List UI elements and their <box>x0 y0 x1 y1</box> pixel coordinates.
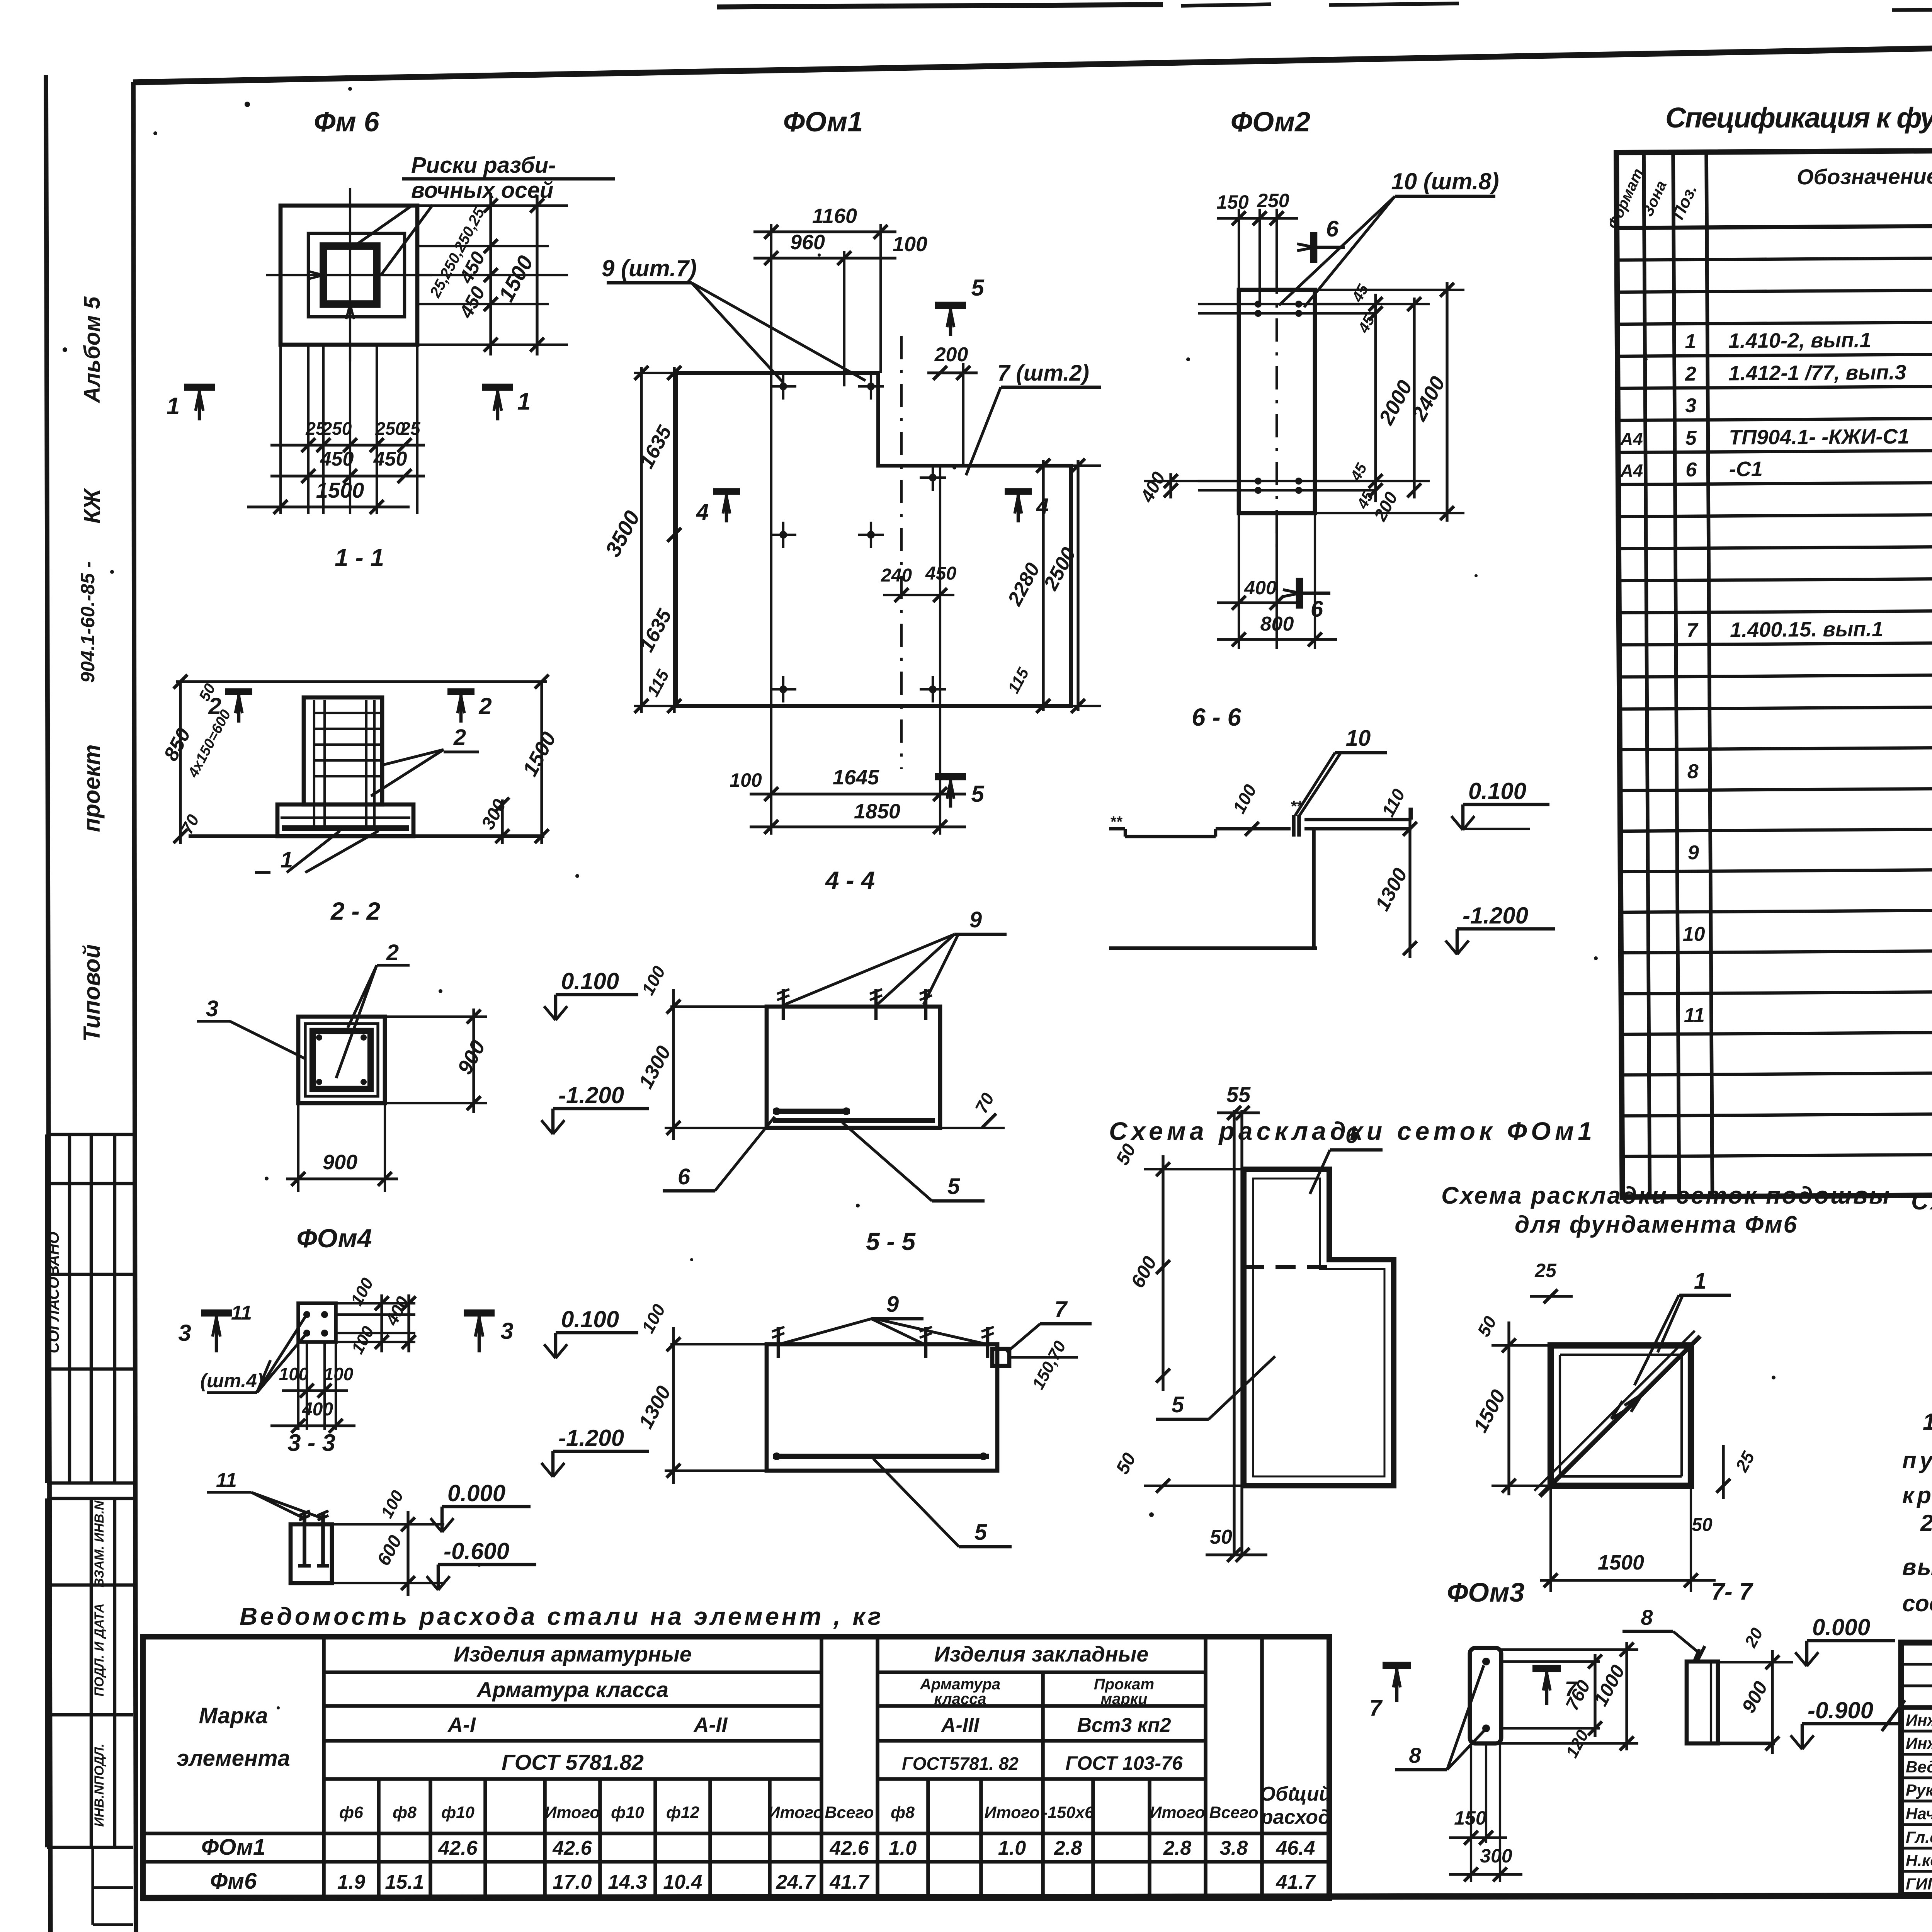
svg-text:1: 1 <box>517 388 531 415</box>
svg-text:8: 8 <box>1409 1743 1421 1767</box>
svg-text:42.6: 42.6 <box>438 1837 478 1859</box>
svg-text:1.410-2, вып.1: 1.410-2, вып.1 <box>1728 328 1871 352</box>
svg-text:0.000: 0.000 <box>447 1480 505 1506</box>
svg-text:марки: марки <box>1101 1690 1148 1708</box>
svg-text:9: 9 <box>969 907 982 932</box>
svg-text:17.0: 17.0 <box>553 1871 592 1893</box>
top dim line of 1-1 elevation <box>176 680 547 683</box>
5-5 block <box>767 1344 997 1471</box>
svg-text:100: 100 <box>279 1364 309 1384</box>
svg-text:-0.900: -0.900 <box>1808 1697 1873 1723</box>
svg-text:Инженер: Инженер <box>1906 1734 1932 1752</box>
section marker 3 left <box>201 1310 232 1317</box>
svg-text:А4: А4 <box>1620 461 1643 481</box>
svg-text:класса: класса <box>934 1690 986 1708</box>
svg-text:3 - 3: 3 - 3 <box>287 1430 335 1456</box>
anchor block <box>291 1524 332 1583</box>
svg-text:Фм6: Фм6 <box>210 1869 257 1894</box>
svg-text:**: ** <box>1290 798 1303 815</box>
svg-text:8: 8 <box>1641 1605 1653 1629</box>
svg-text:Итого: Итого <box>1150 1803 1205 1822</box>
spec table outer <box>1616 146 1932 1197</box>
7-7 bolt <box>1687 1662 1718 1743</box>
svg-text:Фм 6: Фм 6 <box>314 107 379 138</box>
svg-text:6: 6 <box>1685 459 1697 481</box>
svg-text:0.100: 0.100 <box>561 968 619 994</box>
svg-text:Альбом 5: Альбом 5 <box>80 296 105 404</box>
FOm2 right dims <box>1315 303 1430 305</box>
3-3 bottom dims <box>297 1342 299 1430</box>
FOm4 right dim 900 <box>472 1009 475 1113</box>
svg-text:1. Подготовку основания под: 1. Подготовку основания под фундаменты в… <box>1923 1409 1932 1435</box>
svg-text:ФОм2: ФОм2 <box>1231 107 1310 138</box>
svg-text:7- 7: 7- 7 <box>1711 1578 1753 1605</box>
svg-text:СОГЛАСОВАНО: СОГЛАСОВАНО <box>45 1232 62 1354</box>
svg-text:5: 5 <box>971 275 985 301</box>
svg-text:400: 400 <box>302 1399 333 1420</box>
FOm3 square <box>1551 1345 1691 1486</box>
svg-text:9: 9 <box>1688 842 1699 864</box>
FOm4 inner square <box>305 1024 378 1096</box>
svg-text:50: 50 <box>1692 1515 1713 1535</box>
svg-text:11: 11 <box>1684 1004 1705 1027</box>
svg-text:5: 5 <box>975 1520 987 1545</box>
sheet frame: top border <box>133 33 1932 82</box>
svg-text:Риски разби-: Риски разби- <box>411 153 556 178</box>
svg-text:7 (шт.2): 7 (шт.2) <box>997 361 1089 386</box>
section marker 4 right <box>1005 488 1032 495</box>
svg-text:ФОм3: ФОм3 <box>1447 1577 1525 1607</box>
svg-text:3: 3 <box>206 996 218 1021</box>
svg-text:4 - 4: 4 - 4 <box>825 866 875 894</box>
svg-text:15.1: 15.1 <box>385 1871 424 1893</box>
svg-text:Итого: Итого <box>984 1803 1039 1822</box>
vedomost vertical lines <box>322 1637 326 1898</box>
svg-text:Арматура класса: Арматура класса <box>476 1677 668 1702</box>
svg-text:450: 450 <box>373 448 407 470</box>
section marker 5 bottom <box>935 773 966 781</box>
svg-text:Гл.спец.Ю: Гл.спец.Ю <box>1906 1828 1932 1846</box>
svg-text:1: 1 <box>1685 330 1696 353</box>
svg-text:200: 200 <box>934 344 968 366</box>
3-3 witness lines right <box>336 1302 415 1304</box>
svg-text:300: 300 <box>1480 1845 1512 1867</box>
svg-text:5: 5 <box>971 781 985 807</box>
FOm2 centerline <box>1276 270 1278 553</box>
svg-text:1.412-1 /77, вып.3: 1.412-1 /77, вып.3 <box>1728 361 1906 385</box>
4-4 right dim 70 <box>940 1127 1005 1129</box>
svg-text:10: 10 <box>1683 923 1705 946</box>
svg-text:-0.600: -0.600 <box>444 1538 509 1564</box>
svg-text:расход: расход <box>1260 1806 1330 1828</box>
svg-text:А-III: А-III <box>940 1714 980 1736</box>
Fm6 plan column (thick) <box>323 246 377 304</box>
svg-text:ВЗАМ. ИНВ.N: ВЗАМ. ИНВ.N <box>92 1500 107 1587</box>
dims right of bolt bar <box>1501 1648 1638 1651</box>
svg-text:6 - 6: 6 - 6 <box>1192 703 1241 731</box>
svg-text:ф10: ф10 <box>611 1803 644 1822</box>
svg-text:14.3: 14.3 <box>608 1871 647 1893</box>
svg-text:904.1-60.-85 -: 904.1-60.-85 - <box>77 561 99 683</box>
svg-text:крупностью 40-60мм.: крупностью 40-60мм. <box>1902 1482 1932 1508</box>
inner lines <box>770 373 772 706</box>
svg-text:ФОм4: ФОм4 <box>297 1224 372 1253</box>
svg-text:ИНВ.NПОДЛ.: ИНВ.NПОДЛ. <box>92 1743 107 1827</box>
lower stamp grid (vzam/podp/inv) <box>47 1497 133 1500</box>
svg-text:Вед.инж.: Вед.инж. <box>1906 1758 1932 1776</box>
svg-text:7: 7 <box>1687 619 1699 642</box>
soglasovano stamp grid <box>47 1133 133 1136</box>
svg-text:ПОДЛ. И ДАТА: ПОДЛ. И ДАТА <box>92 1604 107 1697</box>
svg-text:2: 2 <box>386 940 399 965</box>
svg-text:Типовой: Типовой <box>79 944 105 1042</box>
Fm6 plan inner step <box>308 233 405 317</box>
5-5 top bolts <box>777 1327 780 1358</box>
svg-text:24.7: 24.7 <box>776 1871 816 1893</box>
signature rows <box>1901 1730 1932 1732</box>
svg-text:0.000: 0.000 <box>1812 1614 1870 1640</box>
svg-text:6: 6 <box>1326 216 1339 241</box>
svg-text:1.0: 1.0 <box>889 1837 917 1859</box>
svg-text:2: 2 <box>453 725 466 750</box>
svg-text:55: 55 <box>1226 1082 1251 1107</box>
anchor bolts <box>303 1513 306 1566</box>
spec header lines <box>1617 221 1932 228</box>
svg-text:1.0: 1.0 <box>998 1837 1026 1859</box>
svg-text:Всего: Всего <box>825 1803 874 1822</box>
FOm4 column thick square <box>313 1031 371 1089</box>
svg-text:50: 50 <box>1210 1526 1232 1548</box>
right dims of 2-2 <box>540 682 543 844</box>
svg-text:ф12: ф12 <box>666 1803 699 1822</box>
svg-text:1: 1 <box>167 393 180 420</box>
svg-text:ГОСТ 103-76: ГОСТ 103-76 <box>1065 1752 1183 1774</box>
svg-text:400: 400 <box>1244 577 1277 599</box>
bolt bar plan <box>1470 1648 1501 1743</box>
svg-text:ГИП: ГИП <box>1906 1875 1932 1893</box>
svg-text:9 (шт.7): 9 (шт.7) <box>602 255 697 281</box>
scan noise specks <box>245 102 250 107</box>
svg-text:3: 3 <box>1685 395 1696 417</box>
svg-text:ГОСТ 5781.82: ГОСТ 5781.82 <box>502 1750 644 1774</box>
FOm4 outer square <box>298 1017 385 1103</box>
svg-text:Марка: Марка <box>199 1703 268 1728</box>
svg-text:соответствии с СН 471- 75.: соответствии с СН 471- 75. <box>1902 1590 1932 1616</box>
dims right of anchor detail <box>406 1511 409 1596</box>
svg-text:250: 250 <box>1257 190 1289 211</box>
svg-text:42.6: 42.6 <box>552 1837 592 1859</box>
svg-text:1: 1 <box>1694 1269 1706 1294</box>
section marker 3 right <box>464 1310 495 1317</box>
ground line <box>189 834 544 838</box>
svg-text:41.7: 41.7 <box>829 1871 869 1893</box>
svg-text:Итого: Итого <box>544 1803 600 1822</box>
svg-text:ф10: ф10 <box>441 1803 474 1822</box>
svg-text:6: 6 <box>1345 1123 1358 1148</box>
svg-text:25: 25 <box>1534 1260 1557 1281</box>
svg-text:1.400.15. вып.1: 1.400.15. вып.1 <box>1730 617 1883 641</box>
svg-text:КЖ: КЖ <box>80 488 105 524</box>
column with rebar <box>304 697 382 804</box>
svg-text:800: 800 <box>1260 613 1294 635</box>
svg-text:Вст3 кп2: Вст3 кп2 <box>1077 1714 1171 1736</box>
svg-text:Н.контр.: Н.контр. <box>1906 1851 1932 1869</box>
diagonal mesh lines <box>1540 1336 1700 1496</box>
svg-text:(шт.4): (шт.4) <box>200 1370 263 1391</box>
svg-text:46.4: 46.4 <box>1276 1837 1315 1859</box>
svg-text:2. Болты поз. 9,10 устанавл: 2. Болты поз. 9,10 устанавливать в гото- <box>1920 1510 1932 1536</box>
svg-text:Рук. гр.: Рук. гр. <box>1906 1781 1932 1799</box>
svg-text:41.7: 41.7 <box>1276 1871 1316 1893</box>
slash before signatures <box>1882 1700 1905 1731</box>
Fm6 plan outer footprint <box>281 206 417 345</box>
svg-text:2: 2 <box>478 693 492 719</box>
svg-text:42.6: 42.6 <box>829 1837 869 1859</box>
6-6 profile <box>1109 827 1125 830</box>
svg-text:150: 150 <box>1454 1807 1486 1829</box>
dashed mesh boundary <box>1244 1265 1329 1269</box>
svg-text:150: 150 <box>1216 191 1249 213</box>
svg-text:6: 6 <box>678 1164 690 1189</box>
svg-text:5: 5 <box>1172 1392 1184 1417</box>
centerline dash-dot <box>900 336 903 769</box>
svg-text:11: 11 <box>216 1469 237 1492</box>
4-4 top bolts <box>782 989 785 1020</box>
svg-text:900: 900 <box>323 1151 357 1174</box>
FOm1 right dims <box>1071 464 1101 467</box>
svg-text:-150х6: -150х6 <box>1042 1803 1094 1822</box>
anchor bolts (9 pcs) <box>779 383 787 390</box>
svg-text:1 - 1: 1 - 1 <box>335 544 384 571</box>
section marker 7 left <box>1383 1662 1411 1669</box>
bottom dims 150 300 <box>1470 1743 1472 1882</box>
svg-text:А4: А4 <box>1620 429 1643 449</box>
svg-text:1645: 1645 <box>833 766 879 789</box>
svg-text:вочных осей: вочных осей <box>411 178 553 203</box>
svg-text:960: 960 <box>790 231 825 254</box>
svg-text:9: 9 <box>886 1292 899 1317</box>
svg-text:для фундамента Фм6: для фундамента Фм6 <box>1515 1211 1797 1238</box>
svg-text:100: 100 <box>730 769 762 791</box>
svg-text:7: 7 <box>1054 1297 1068 1322</box>
svg-text:Спецификация к фундаментам: Спецификация к фундаментам ФОм1 - ФОм4, … <box>1665 102 1932 134</box>
svg-text:0.100: 0.100 <box>561 1306 619 1332</box>
svg-text:Общий: Общий <box>1260 1783 1332 1805</box>
FOm1 left dims <box>634 372 676 374</box>
FOm2 top dims 150 250 <box>1238 209 1240 290</box>
svg-text:10: 10 <box>1346 726 1371 751</box>
svg-text:5: 5 <box>1685 427 1697 449</box>
vedomost horizontal lines <box>324 1670 821 1674</box>
svg-text:Инженер: Инженер <box>1906 1711 1932 1729</box>
Fm6 bottom witness lines and dims <box>279 345 282 514</box>
svg-text:Ведомость расхода стали н: Ведомость расхода стали на элемент , кг <box>240 1602 881 1630</box>
4-4 bottom meshes <box>773 1109 850 1114</box>
4-4 block <box>767 1007 940 1128</box>
scan smudge marks <box>717 5 1163 7</box>
FOm2 left dim 400 <box>1144 480 1239 482</box>
FOm2 anchor rows bottom <box>1198 480 1360 482</box>
svg-text:1500: 1500 <box>316 478 364 502</box>
FOm2 outline <box>1239 290 1315 513</box>
svg-text:ФОм1: ФОм1 <box>783 107 863 138</box>
svg-text:4: 4 <box>1036 494 1049 519</box>
upper small rows <box>1901 1663 1932 1665</box>
svg-text:1500: 1500 <box>1598 1551 1644 1574</box>
section marker 4 left <box>713 488 740 495</box>
svg-text:2: 2 <box>1685 363 1696 385</box>
svg-text:Всего: Всего <box>1209 1803 1258 1822</box>
svg-text:10 (шт.8): 10 (шт.8) <box>1391 168 1499 194</box>
svg-text:11: 11 <box>231 1302 252 1324</box>
section marker 5 top <box>935 302 966 309</box>
svg-text:элемента: элемента <box>177 1746 290 1771</box>
svg-text:10.4: 10.4 <box>663 1871 702 1893</box>
FOm2 anchor rows top <box>1198 303 1360 305</box>
svg-text:450: 450 <box>320 448 354 470</box>
svg-text:ф8: ф8 <box>891 1803 915 1822</box>
svg-text:1160: 1160 <box>812 204 857 228</box>
svg-text:5: 5 <box>947 1174 960 1199</box>
L-shape outline thick <box>1244 1169 1394 1486</box>
svg-text:ГОСТ5781. 82: ГОСТ5781. 82 <box>902 1753 1019 1774</box>
svg-text:4: 4 <box>696 500 709 525</box>
section 2 markers <box>225 688 252 695</box>
footing <box>277 804 413 836</box>
svg-text:3: 3 <box>500 1318 513 1344</box>
svg-text:А-II: А-II <box>693 1713 728 1736</box>
Fm6 axes <box>349 188 351 361</box>
svg-text:8: 8 <box>1687 760 1699 783</box>
svg-text:1.9: 1.9 <box>337 1871 365 1893</box>
section marker 6 top <box>1310 232 1318 263</box>
Fm6 right witness lines and dims <box>417 204 568 207</box>
FOm2 bottom dims <box>1238 513 1240 649</box>
5-5 bottom mesh <box>773 1454 989 1459</box>
svg-text:ФОм1: ФОм1 <box>201 1835 265 1860</box>
svg-text:ТП904.1- -КЖИ-С1: ТП904.1- -КЖИ-С1 <box>1729 425 1909 449</box>
svg-text:А-I: А-I <box>447 1713 476 1736</box>
svg-text:Обозначение: Обозначение <box>1797 164 1932 189</box>
svg-text:вые фундаменты на эпоксидно: вые фундаменты на эпоксидном клею в <box>1902 1554 1932 1580</box>
svg-text:250: 250 <box>322 418 352 439</box>
sheet frame: left trim line <box>46 75 51 1932</box>
level line 0.000 <box>332 1523 444 1526</box>
svg-text:2.8: 2.8 <box>1054 1837 1082 1859</box>
svg-text:240: 240 <box>881 565 912 586</box>
svg-text:**: ** <box>1110 813 1123 830</box>
svg-text:Изделия арматурные: Изделия арматурные <box>454 1642 692 1666</box>
sheet frame: inner left margin line <box>133 82 136 1932</box>
svg-text:Нач.осп.: Нач.осп. <box>1906 1804 1932 1823</box>
wide bottom rule above margin texts <box>141 1895 1932 1898</box>
svg-text:6: 6 <box>1311 597 1323 622</box>
svg-text:-1.200: -1.200 <box>558 1425 624 1451</box>
vedomost outer <box>143 1637 1329 1898</box>
svg-text:-1.200: -1.200 <box>558 1082 624 1108</box>
5-5 right plate <box>992 1349 1009 1366</box>
section marker 1 right <box>482 384 513 391</box>
FOm1 top-right dim 200 <box>962 363 964 466</box>
FOm1 top dims <box>770 224 772 373</box>
svg-text:-С1: -С1 <box>1729 457 1763 481</box>
FOm1 bottom dims <box>770 706 772 835</box>
7-7 base line <box>1685 1742 1775 1745</box>
svg-text:1850: 1850 <box>854 800 900 823</box>
left dims of 2-2 <box>179 682 182 844</box>
6-6 anchor bolt <box>1292 815 1296 837</box>
title block outer <box>1901 1643 1932 1895</box>
svg-text:100: 100 <box>324 1364 354 1384</box>
svg-text:проект: проект <box>79 744 105 832</box>
svg-text:2.8: 2.8 <box>1163 1837 1191 1859</box>
section marker 6 bottom <box>1296 578 1303 609</box>
3-3 plate rect <box>298 1303 336 1342</box>
marker 7 inner <box>1532 1665 1561 1672</box>
FOm4 bottom dim 900 <box>286 1177 398 1180</box>
svg-text:7: 7 <box>1369 1696 1383 1721</box>
svg-text:3.8: 3.8 <box>1220 1837 1248 1859</box>
svg-text:25: 25 <box>400 418 421 439</box>
svg-text:-1.200: -1.200 <box>1463 903 1528 929</box>
svg-text:450: 450 <box>925 563 956 584</box>
svg-text:ф6: ф6 <box>339 1803 364 1822</box>
svg-text:Изделия закладные: Изделия закладные <box>934 1642 1148 1666</box>
svg-text:5 - 5: 5 - 5 <box>866 1228 916 1255</box>
mesh C2 vertical strip <box>1233 1110 1235 1555</box>
svg-text:3: 3 <box>178 1320 191 1346</box>
7-7 dims <box>1771 1650 1774 1754</box>
svg-text:2 - 2: 2 - 2 <box>330 897 380 925</box>
svg-text:100: 100 <box>893 233 927 256</box>
title block main horizontals <box>1901 1705 1932 1710</box>
svg-text:0.100: 0.100 <box>1468 778 1526 804</box>
svg-text:Итого: Итого <box>768 1803 823 1822</box>
bottom dim 1500 <box>1540 1579 1716 1582</box>
svg-text:ф8: ф8 <box>393 1803 417 1822</box>
FOm1 plan outline <box>676 373 1071 706</box>
section marker 1 left <box>184 384 215 391</box>
